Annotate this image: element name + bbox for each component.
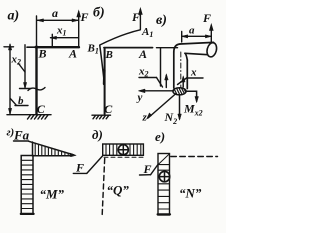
diagonal in top cell (fig e)	[158, 154, 169, 165]
frame a: beam BA	[36, 46, 80, 48]
left height dimension line (fig a)	[4, 44, 14, 114]
bent rod: column left outline	[173, 52, 175, 88]
Q rectangle hatching	[106, 144, 141, 155]
svg-text:а): а)	[8, 9, 20, 24]
dashed column axis (fig d)	[102, 159, 105, 215]
dashed beam axis (fig e)	[171, 156, 218, 158]
svg-text:в): в)	[156, 13, 167, 28]
svg-text:C: C	[37, 102, 46, 116]
svg-text:A: A	[68, 47, 77, 61]
bent rod: inner bend arc	[185, 53, 187, 60]
section ellipse (fig v)	[173, 88, 186, 95]
M diagram triangle (fig g)	[29, 141, 76, 156]
M diagram column bar (fig g)	[21, 156, 33, 215]
ground hatching at C (fig b)	[92, 115, 111, 119]
frame a: column BC	[35, 47, 37, 115]
svg-text:B: B	[38, 47, 47, 61]
svg-text:C: C	[104, 102, 113, 116]
Q diagram rectangle (fig d)	[103, 144, 144, 155]
N bar thick bottom edge	[158, 213, 170, 215]
svg-text:y: y	[136, 92, 143, 104]
svg-text:a: a	[189, 25, 195, 37]
left measure line (fig v)	[160, 48, 162, 86]
bent rod: outer bend arc	[174, 44, 180, 52]
small arrow on column (fig v, left)	[165, 74, 168, 88]
svg-text:z: z	[142, 112, 148, 124]
svg-text:Fa: Fa	[13, 128, 30, 143]
dimension x1 (fig a)	[50, 34, 78, 46]
frame b: deflected column B1-C	[100, 46, 104, 83]
bent rod: right end cap ellipse	[206, 42, 218, 58]
svg-text:A: A	[138, 47, 147, 61]
force F arrow at A (fig a)	[77, 11, 81, 48]
break wavy line across column (fig a)	[28, 88, 45, 91]
thick overlap segment on column (fig b)	[103, 70, 106, 84]
M bar hatching	[21, 160, 33, 208]
N rectangle hatching	[158, 165, 170, 209]
reference level line (fig v)	[157, 47, 178, 49]
svg-text:F: F	[131, 10, 140, 24]
Fa underline	[14, 140, 29, 142]
small arrow on column axis (fig v, right)	[182, 76, 185, 87]
svg-text:a: a	[52, 6, 58, 20]
N diagram rectangle (fig e)	[158, 154, 170, 216]
M bar thick bottom edge	[21, 213, 34, 215]
bent rod: column dash-dot axis	[180, 52, 182, 88]
svg-text:x: x	[190, 67, 197, 79]
dimension a (fig v)	[182, 32, 212, 43]
svg-text:B: B	[105, 49, 113, 61]
svg-text:“М”: “М”	[40, 187, 65, 202]
frame b: deflected beam B1-A1	[100, 30, 141, 45]
svg-text:д): д)	[92, 127, 103, 142]
svg-text:б): б)	[93, 6, 105, 21]
bent rod: bottom line	[185, 53, 208, 54]
dimension x2 (fig a)	[19, 45, 32, 89]
frame b: straight column (original position)	[104, 48, 106, 114]
svg-text:F: F	[143, 162, 152, 176]
bent rod (fig v): horizontal tube top line	[180, 42, 214, 44]
dimension a (fig a)	[37, 16, 79, 47]
svg-text:е): е)	[155, 129, 165, 144]
dashed beam axis (fig d)	[104, 156, 143, 158]
plus-in-circle (fig e)	[159, 171, 169, 181]
force F arrow (fig b)	[139, 8, 143, 30]
svg-text:F: F	[80, 10, 89, 24]
M triangle hatching	[35, 143, 68, 156]
extension tick left of B (fig a)	[27, 46, 36, 48]
svg-text:F: F	[202, 11, 211, 25]
force F arrow (fig v)	[209, 24, 213, 43]
bent rod: column right outline	[186, 60, 188, 89]
frame b: straight beam (original position)	[104, 47, 153, 49]
z axis arrow (fig v)	[147, 94, 176, 120]
plus-in-circle (fig d)	[118, 145, 128, 155]
ground hatching at C (fig a)	[7, 115, 51, 119]
svg-text:F: F	[75, 161, 84, 175]
y axis arrow (fig v)	[139, 89, 174, 93]
moment Mx2 elbow arrow (fig v)	[186, 91, 198, 102]
svg-text:“Q”: “Q”	[107, 183, 130, 198]
normal force N arrow (fig v)	[178, 96, 181, 121]
svg-text:“N”: “N”	[179, 186, 202, 201]
